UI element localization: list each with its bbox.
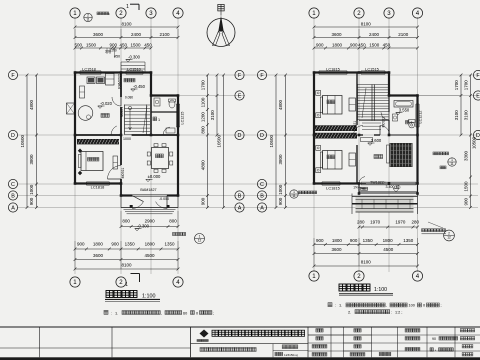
svg-text:800: 800 xyxy=(122,219,130,224)
svg-text:900: 900 xyxy=(350,238,358,243)
svg-text:800: 800 xyxy=(169,219,177,224)
svg-text:450: 450 xyxy=(119,42,127,47)
svg-text:-0.300: -0.300 xyxy=(137,223,150,228)
svg-text:1800: 1800 xyxy=(93,242,104,247)
svg-text:LC1815: LC1815 xyxy=(326,185,340,190)
svg-text:LC1815: LC1815 xyxy=(326,67,340,72)
svg-text::: : xyxy=(391,310,392,314)
svg-text:;: ; xyxy=(213,311,214,315)
svg-text:D: D xyxy=(260,133,264,139)
svg-text:1: 1 xyxy=(158,118,160,122)
svg-text:1500: 1500 xyxy=(86,42,97,47)
svg-text:2.: 2. xyxy=(348,309,351,314)
svg-text:900: 900 xyxy=(316,42,324,47)
svg-text:450: 450 xyxy=(383,42,391,47)
svg-text:A: A xyxy=(260,205,264,211)
svg-text:1000: 1000 xyxy=(29,184,34,195)
svg-text:3.600: 3.600 xyxy=(371,138,382,143)
svg-text:1: 1 xyxy=(125,282,128,288)
svg-text:1500: 1500 xyxy=(463,181,468,192)
svg-text:450: 450 xyxy=(144,42,152,47)
svg-text:BAM1827: BAM1827 xyxy=(140,188,156,192)
svg-text:11: 11 xyxy=(450,162,454,166)
svg-text:;: ; xyxy=(440,304,441,308)
svg-text:LC1212: LC1212 xyxy=(419,111,423,124)
svg-text:10500: 10500 xyxy=(20,134,25,147)
svg-text:4500: 4500 xyxy=(144,253,155,258)
svg-text:1:2 ;: 1:2 ; xyxy=(395,310,402,314)
svg-text:900: 900 xyxy=(200,197,205,205)
svg-text:0: 0 xyxy=(196,311,198,315)
svg-text:2400: 2400 xyxy=(131,32,142,37)
svg-text:1000: 1000 xyxy=(278,184,283,195)
svg-text:F: F xyxy=(476,73,480,79)
svg-text:280: 280 xyxy=(357,219,365,224)
svg-text:1%: 1% xyxy=(353,186,358,190)
svg-text:1970: 1970 xyxy=(370,219,381,224)
svg-text:-0.300: -0.300 xyxy=(128,54,141,59)
svg-text:0: 0 xyxy=(423,304,425,308)
svg-text:2400: 2400 xyxy=(369,32,380,37)
svg-text:3600: 3600 xyxy=(93,32,104,37)
svg-text:1350: 1350 xyxy=(363,238,374,243)
svg-text:8100: 8100 xyxy=(361,21,372,26)
svg-text:200: 200 xyxy=(111,49,117,53)
svg-text:RAM0921: RAM0921 xyxy=(117,73,121,89)
svg-text:LC1510: LC1510 xyxy=(127,67,141,72)
svg-text:123150-sj: 123150-sj xyxy=(284,353,298,357)
svg-text:3100: 3100 xyxy=(463,110,468,121)
svg-text:4800: 4800 xyxy=(29,99,34,110)
svg-text:3300: 3300 xyxy=(463,150,468,161)
svg-text:1500: 1500 xyxy=(130,42,141,47)
svg-text:LC1818: LC1818 xyxy=(91,185,105,190)
svg-text:E: E xyxy=(476,93,480,99)
svg-text:M0921: M0921 xyxy=(121,168,125,179)
svg-text:-0.450: -0.450 xyxy=(133,84,146,89)
svg-text:0.080: 0.080 xyxy=(125,96,133,100)
svg-text:1700: 1700 xyxy=(463,80,468,91)
svg-text:1350: 1350 xyxy=(403,238,414,243)
svg-text:3.400(饎): 3.400(饎) xyxy=(386,184,401,189)
svg-text:4800: 4800 xyxy=(200,160,205,171)
svg-text:A: A xyxy=(11,205,15,211)
svg-text:3600: 3600 xyxy=(331,247,342,252)
svg-text:100: 100 xyxy=(409,304,415,308)
svg-text:900: 900 xyxy=(350,42,358,47)
svg-text:10500: 10500 xyxy=(269,134,274,147)
svg-text:11: 11 xyxy=(292,194,296,198)
svg-text:E: E xyxy=(238,93,242,99)
svg-text:3.550: 3.550 xyxy=(399,107,410,112)
svg-text:8100: 8100 xyxy=(121,21,132,26)
svg-text:3600: 3600 xyxy=(331,32,342,37)
svg-text:±0.000: ±0.000 xyxy=(148,174,161,179)
svg-text:-0.020: -0.020 xyxy=(100,101,113,106)
svg-text:B: B xyxy=(238,193,242,199)
svg-text:LC1215: LC1215 xyxy=(181,112,185,125)
svg-text:90: 90 xyxy=(432,337,436,341)
svg-text:•: • xyxy=(435,348,436,352)
svg-text:2100: 2100 xyxy=(159,32,170,37)
svg-text:60: 60 xyxy=(183,311,187,315)
svg-text:1800: 1800 xyxy=(145,242,156,247)
svg-text:900: 900 xyxy=(316,238,324,243)
svg-text:11: 11 xyxy=(86,18,90,22)
svg-text:900: 900 xyxy=(109,42,117,47)
svg-text:2: 2 xyxy=(411,121,413,125)
svg-text:2100: 2100 xyxy=(398,32,409,37)
svg-text::: : xyxy=(111,311,112,315)
svg-text::: : xyxy=(335,304,336,308)
svg-text:1100: 1100 xyxy=(200,97,205,107)
svg-text:1.: 1. xyxy=(115,310,118,315)
svg-text:B: B xyxy=(11,193,15,199)
svg-text:3100: 3100 xyxy=(210,110,215,121)
svg-text:D: D xyxy=(11,133,15,139)
svg-text:D: D xyxy=(238,133,242,139)
svg-text:1700: 1700 xyxy=(454,80,459,91)
svg-text:900: 900 xyxy=(77,242,85,247)
svg-text:900: 900 xyxy=(463,198,468,206)
svg-text:1:100: 1:100 xyxy=(374,287,387,293)
svg-text:3600: 3600 xyxy=(93,253,104,258)
svg-text:900: 900 xyxy=(278,197,283,205)
svg-text:1350: 1350 xyxy=(164,242,175,247)
svg-text:LC1518: LC1518 xyxy=(82,67,96,72)
svg-text:3100: 3100 xyxy=(454,110,459,121)
svg-text:C: C xyxy=(260,182,264,188)
svg-text:3800: 3800 xyxy=(29,154,34,165)
svg-text:500: 500 xyxy=(74,42,82,47)
svg-text:B: B xyxy=(260,193,264,199)
svg-text:10500: 10500 xyxy=(216,134,221,147)
svg-text:1700: 1700 xyxy=(200,80,205,91)
svg-text:C: C xyxy=(11,182,15,188)
svg-text:1800: 1800 xyxy=(383,238,394,243)
svg-text:3800: 3800 xyxy=(278,154,283,165)
svg-text:280: 280 xyxy=(411,219,419,224)
svg-text:1: 1 xyxy=(126,4,129,10)
svg-text:D: D xyxy=(476,133,480,139)
svg-text:4500: 4500 xyxy=(383,247,394,252)
svg-text:4800: 4800 xyxy=(278,99,283,110)
svg-text:900: 900 xyxy=(111,242,119,247)
svg-text:12: 12 xyxy=(198,239,202,243)
svg-text:1350: 1350 xyxy=(125,242,136,247)
svg-text:1500: 1500 xyxy=(369,42,380,47)
svg-text:800: 800 xyxy=(200,126,205,134)
svg-text:1000: 1000 xyxy=(123,137,131,141)
svg-text:,: , xyxy=(386,304,387,308)
svg-text:8100: 8100 xyxy=(121,263,132,268)
svg-text:12: 12 xyxy=(447,236,451,240)
svg-text:A: A xyxy=(238,205,242,211)
svg-text:,: , xyxy=(161,311,162,315)
svg-text:1970: 1970 xyxy=(395,219,406,224)
svg-text:1800: 1800 xyxy=(332,238,343,243)
svg-text:M0921: M0921 xyxy=(381,117,385,128)
svg-text:1800: 1800 xyxy=(332,42,343,47)
svg-text:450: 450 xyxy=(358,42,366,47)
svg-text:TW1822+: TW1822+ xyxy=(370,180,386,184)
svg-text:8100: 8100 xyxy=(361,260,372,265)
svg-text:LC1515: LC1515 xyxy=(365,67,379,72)
svg-text:300: 300 xyxy=(105,50,111,54)
svg-text:1200: 1200 xyxy=(200,112,205,123)
svg-text:1.: 1. xyxy=(339,303,342,308)
svg-text:1:100: 1:100 xyxy=(142,293,156,299)
svg-text:M0921: M0921 xyxy=(120,107,124,117)
svg-text:-0.050: -0.050 xyxy=(159,197,169,201)
svg-text:450: 450 xyxy=(114,55,120,59)
svg-text:900: 900 xyxy=(29,197,34,205)
